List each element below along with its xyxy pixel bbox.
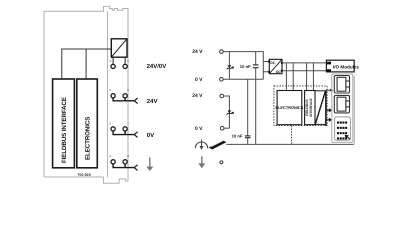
feed wire to electronics 2 (292, 63, 294, 91)
terminal row 3 circles (pins 3,7) (111, 127, 115, 131)
svg-text:0 V: 0 V (195, 77, 203, 83)
TVS suppressor (field supply) (227, 110, 234, 114)
feed wire to fieldbus interface 1 (306, 63, 308, 91)
svg-text:DC: DC (276, 70, 281, 74)
svg-text:7: 7 (127, 121, 129, 125)
I/O Modules box (326, 60, 359, 72)
RJ45 jack 2 (334, 95, 349, 113)
bus contact strip left edge (107, 11, 109, 177)
svg-text:5: 5 (127, 59, 129, 63)
service port outline (335, 117, 351, 140)
electronics box (schematic) (275, 91, 303, 125)
wire 0V field to TVS2 (224, 127, 229, 129)
svg-text:2: 2 (109, 88, 111, 92)
svg-text:24V/0V: 24V/0V (147, 63, 167, 70)
wire fieldbus box to DC/DC (62, 49, 112, 79)
wire 0V system rail to DC/DC input (223, 78, 263, 80)
svg-text:FIELDBUS INTERFACE: FIELDBUS INTERFACE (61, 97, 68, 163)
service port pin grid (337, 122, 347, 140)
feed wire to fieldbus interface 2 (312, 63, 314, 91)
svg-text:24 V: 24 V (192, 49, 203, 55)
DIN rail symbol (hatched bar) (209, 140, 227, 149)
svg-text:10 nF: 10 nF (240, 64, 251, 69)
ground arrow (left device earth) (146, 158, 153, 172)
terminal T5 (rail tap) (220, 161, 223, 164)
service port insertion arrow (345, 135, 351, 140)
svg-text:I/O Modules: I/O Modules (333, 65, 359, 70)
svg-text:3: 3 (109, 121, 111, 125)
svg-text:24 V: 24 V (192, 93, 203, 99)
right housing outline (332, 74, 353, 142)
0V rail bottom (DC/DC to I/O modules) (283, 70, 326, 72)
arrow to service port (326, 118, 333, 122)
row 2 stubs and bus with clamp (113, 98, 134, 101)
terminal row 2 circles (pins 2,6) (111, 94, 115, 98)
svg-text:INTERFACE: INTERFACE (309, 97, 313, 116)
fieldbus interface box (schematic) (305, 91, 315, 125)
housing inner edge near rail (353, 76, 355, 145)
dashed coupler boundary (274, 86, 327, 126)
svg-text:1: 1 (109, 59, 111, 63)
crossover link fieldbus to connectors (315, 91, 326, 126)
TVS suppressor (system supply) (227, 52, 234, 80)
arrow to RJ45 jack 1 (326, 89, 333, 92)
svg-text:8: 8 (127, 154, 129, 158)
svg-text:10 nF: 10 nF (232, 134, 243, 139)
RJ45 jack 1 (334, 76, 349, 94)
functional earth symbol (arc with arrow) (195, 140, 207, 150)
svg-text:24V: 24V (147, 98, 158, 105)
svg-text:4: 4 (109, 154, 111, 158)
terminal T1 24V system (220, 50, 224, 54)
arrow to RJ45 jack 2 (326, 108, 333, 112)
row 4 stubs and bus with clamp (113, 164, 134, 168)
gray down arrow (rail potential) (198, 156, 205, 168)
terminal row 1 circles (pins 1,5) (111, 64, 115, 68)
row 3 stubs and bus with clamp (113, 131, 134, 135)
svg-text:0 V: 0 V (195, 126, 203, 132)
fieldbus interface box (53, 79, 75, 168)
terminal T2 0V system (220, 78, 224, 82)
module body outline with top latch profile and DIN-rail foot (44, 6, 128, 183)
5V rail top (DC/DC to I/O modules) (283, 62, 326, 64)
wire electronics box to DC/DC (85, 49, 87, 79)
earth / rail line (226, 143, 353, 145)
feed wire to electronics 1 (285, 63, 287, 91)
capacitor C2 10nF (system 0V to rail) (245, 79, 251, 144)
electronics box (77, 79, 98, 168)
DC/DC converter block (left device) (111, 39, 127, 57)
terminal T4 0V field (220, 126, 224, 130)
terminal row 1 stubs (112, 57, 114, 64)
terminal T3 24V field (220, 94, 224, 98)
capacitor C1 10nF (system to rail) (253, 52, 259, 145)
svg-text:0V: 0V (147, 132, 154, 139)
terminal row 4 circles (pins 4,8) (111, 160, 115, 164)
svg-text:DC: DC (270, 61, 275, 65)
dashed drop to rail line (291, 126, 293, 145)
svg-text:ELECTRONICS: ELECTRONICS (275, 105, 303, 110)
wire 24V system rail to DC/DC input (223, 52, 268, 80)
wire 24V field with TVS2 to 0V field (224, 96, 230, 128)
svg-text:ELECTRONICS: ELECTRONICS (84, 117, 91, 160)
DC/DC converter (schematic) (268, 59, 283, 74)
svg-text:6: 6 (127, 88, 129, 92)
svg-text:750-920: 750-920 (77, 173, 91, 177)
